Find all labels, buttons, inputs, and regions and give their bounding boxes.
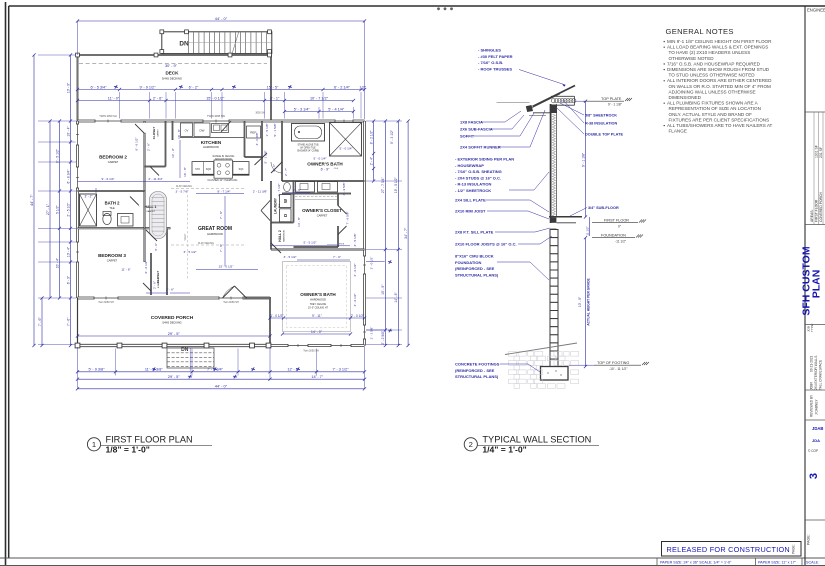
svg-text:6' - 8 3/4": 6' - 8 3/4" xyxy=(66,169,70,184)
kitchen island xyxy=(192,162,249,176)
svg-text:7' - 6": 7' - 6" xyxy=(66,317,70,326)
svg-text:2X4 SOFFIT RUNNER: 2X4 SOFFIT RUNNER xyxy=(460,145,501,150)
vault dashed + label xyxy=(187,195,189,280)
title block divider 1 xyxy=(805,111,825,113)
svg-text:OWNER'S BATH: OWNER'S BATH xyxy=(307,162,343,167)
svg-text:4 SHELVES: 4 SHELVES xyxy=(158,277,160,288)
exterior wall: bottom (porch header) xyxy=(78,297,271,300)
svg-text:FIXTURES ARE PER CLIENT SPECIF: FIXTURES ARE PER CLIENT SPECIFICATIONS xyxy=(669,117,770,122)
left overall 44-7 xyxy=(33,55,35,346)
svg-text:9' - 1 1/8": 9' - 1 1/8" xyxy=(608,103,623,107)
hall stairwell hatched xyxy=(150,192,167,239)
svg-text:2X4 EXTERIOR WALLS: 2X4 EXTERIOR WALLS xyxy=(814,356,818,390)
deck right edge wall xyxy=(270,55,272,121)
svg-text:5' - 0 1/4": 5' - 0 1/4" xyxy=(313,157,326,161)
svg-text:2X4 SILL PLATE: 2X4 SILL PLATE xyxy=(455,198,486,203)
title block left border xyxy=(804,6,806,566)
double top plate block xyxy=(550,105,557,114)
extension lines: bottom dim rows xyxy=(115,349,117,376)
svg-text:DN: DN xyxy=(181,347,189,353)
svg-text:3' - 5 1/2": 3' - 5 1/2" xyxy=(183,250,196,254)
svg-text:2' - 5 1/2": 2' - 5 1/2" xyxy=(66,202,70,217)
svg-text:W/ OPEN TILE: W/ OPEN TILE xyxy=(300,147,316,149)
door: bedroom2 xyxy=(143,123,146,133)
plan title: circled 1 xyxy=(87,438,100,451)
closet bedroom2: walls xyxy=(165,121,167,167)
door: great room french doors xyxy=(223,286,235,298)
svg-text:2' - 11 3/8": 2' - 11 3/8" xyxy=(253,189,268,193)
exterior wall: top xyxy=(78,120,365,123)
exterior wall: right xyxy=(363,121,366,346)
svg-text:29' - 5": 29' - 5" xyxy=(168,331,181,336)
svg-text:OWNER'S CLOSET: OWNER'S CLOSET xyxy=(302,208,342,213)
svg-text:27' - 1": 27' - 1" xyxy=(46,203,50,215)
svg-text:2' - 7": 2' - 7" xyxy=(284,168,288,176)
left dim chain inner xyxy=(70,55,72,346)
porch bottom edge + posts xyxy=(78,343,271,345)
kitchen right wall (pantry/ref) xyxy=(244,121,246,157)
svg-text:CLG: CLG xyxy=(334,168,339,170)
extension lines: top dim rows xyxy=(119,92,121,119)
svg-text:CLOSET: CLOSET xyxy=(152,127,156,140)
svg-text:- #30 FELT PAPER: - #30 FELT PAPER xyxy=(478,54,513,59)
right dim chain 27-7/10-9 xyxy=(384,121,386,346)
owners wc toilet xyxy=(284,182,291,191)
svg-text:PAPER SIZE: 11" x 17": PAPER SIZE: 11" x 17" xyxy=(758,561,797,565)
svg-text:TWIN 3050 SH: TWIN 3050 SH xyxy=(99,114,117,118)
right dim 9-1 1/8 xyxy=(585,101,587,217)
svg-text:- 1/2" SHEETROCK: - 1/2" SHEETROCK xyxy=(455,188,491,193)
svg-text:7' - 8": 7' - 8" xyxy=(219,211,223,219)
svg-text:10' - 4": 10' - 4" xyxy=(55,257,59,268)
svg-text:ALL PLUMBING FIXTURES SHOWN AR: ALL PLUMBING FIXTURES SHOWN ARE A xyxy=(667,101,759,106)
grade line xyxy=(505,343,577,355)
svg-text:1: 1 xyxy=(92,440,96,449)
svg-text:GENERAL NOTES: GENERAL NOTES xyxy=(666,27,734,36)
ground hatch around footing xyxy=(509,352,579,389)
svg-text:6' - 9": 6' - 9" xyxy=(321,167,330,171)
sheet border top xyxy=(9,5,825,7)
kitchen/great-room wall stub xyxy=(172,121,174,140)
windows: top wall xyxy=(95,119,121,123)
svg-text:Twin 3050 SH: Twin 3050 SH xyxy=(223,301,239,304)
svg-text:FLAT CEILING: FLAT CEILING xyxy=(176,185,192,188)
svg-text:1' - 7 1/2": 1' - 7 1/2" xyxy=(277,183,281,196)
svg-text:2' - 9": 2' - 9" xyxy=(293,188,301,192)
right window locator dims xyxy=(366,261,385,263)
svg-text:7' - 0": 7' - 0" xyxy=(333,255,341,259)
svg-text:5' - 5 1/2": 5' - 5 1/2" xyxy=(303,241,316,245)
left dim 27-1 xyxy=(49,121,51,298)
svg-text:16' - 8": 16' - 8" xyxy=(183,167,187,177)
deck dashed setback line, 30-9 dim xyxy=(79,63,267,65)
svg-text:OTHERWISE NOTED: OTHERWISE NOTED xyxy=(669,56,715,61)
svg-text:HARDWOOD: HARDWOOD xyxy=(207,232,223,236)
svg-text:CARPET: CARPET xyxy=(146,210,156,213)
svg-text:MIN 9'-1 1/8" CEILING HEIGHT O: MIN 9'-1 1/8" CEILING HEIGHT ON FIRST FL… xyxy=(667,39,772,44)
svg-text:9' - 9 1/2": 9' - 9 1/2" xyxy=(139,85,156,89)
svg-text:- 7/16" O.S.B. SHEATING: - 7/16" O.S.B. SHEATING xyxy=(455,169,502,174)
svg-text:5 1/2": 5 1/2" xyxy=(55,205,59,214)
windows: right wall xyxy=(363,256,367,274)
svg-text:RELEASED FOR CONSTRUCTION: RELEASED FOR CONSTRUCTION xyxy=(667,545,790,554)
svg-text:2' - 2 5/8": 2' - 2 5/8" xyxy=(370,327,374,340)
svg-text:SOFFIT: SOFFIT xyxy=(460,134,475,139)
svg-text:- HOUSEWRAP: - HOUSEWRAP xyxy=(455,163,484,168)
wall insulation zigzag xyxy=(552,114,555,217)
right dim actual height xyxy=(585,238,587,367)
svg-text:29' - 5": 29' - 5" xyxy=(168,375,180,379)
svg-text:10' - 0": 10' - 0" xyxy=(66,82,70,93)
svg-text:1/2": 1/2" xyxy=(359,85,366,89)
svg-text:FOUNDATION: FOUNDATION xyxy=(601,234,626,238)
svg-text:16' - 8": 16' - 8" xyxy=(177,129,181,139)
svg-text:VAULT: VAULT xyxy=(184,233,187,241)
svg-text:FLUSHED 42" OVERHANG: FLUSHED 42" OVERHANG xyxy=(208,179,238,182)
wall stud band xyxy=(550,104,552,223)
svg-text:7' - 6 5/8": 7' - 6 5/8" xyxy=(346,211,350,224)
owners closet bottom wall xyxy=(294,246,339,248)
svg-text:14' - 0": 14' - 0" xyxy=(311,330,323,334)
svg-text:CARPET: CARPET xyxy=(317,214,328,218)
door: bedroom2 closet xyxy=(150,167,159,176)
svg-text:- EXTERIOR SIDING PER PLAN: - EXTERIOR SIDING PER PLAN xyxy=(455,157,514,162)
svg-text:DECK: DECK xyxy=(165,71,179,76)
wing left wall (porch right) xyxy=(269,298,271,346)
svg-text:2' - 6": 2' - 6" xyxy=(153,281,157,289)
section roof slope xyxy=(533,86,576,107)
svg-text:CARPET: CARPET xyxy=(157,128,160,137)
svg-text:6' - 6 1/2": 6' - 6 1/2" xyxy=(135,137,139,150)
sheet border left xyxy=(8,6,10,558)
svg-text:CARPET: CARPET xyxy=(108,160,119,164)
wing window dims xyxy=(270,317,365,319)
owners closet shelves + label xyxy=(295,196,337,198)
door: kitchen top (deck door) xyxy=(221,121,231,132)
svg-text:10' - 7 1/2": 10' - 7 1/2" xyxy=(310,96,329,100)
svg-text:2X8 P.T. SILL PLATE: 2X8 P.T. SILL PLATE xyxy=(455,230,494,235)
deck top edge wall xyxy=(78,54,272,56)
toolbar dots xyxy=(437,7,440,10)
top dim chain row 3 xyxy=(285,111,354,113)
svg-text:8' - 2 1/2": 8' - 2 1/2" xyxy=(369,129,373,144)
svg-text:2: 2 xyxy=(469,440,473,449)
stair break line xyxy=(232,31,239,54)
deck stair landing outline xyxy=(162,32,272,54)
svg-text:ALL INTERIOR DOORS ARE EITHER: ALL INTERIOR DOORS ARE EITHER CENTERED xyxy=(667,78,772,83)
svg-text:3' - 11 3/4": 3' - 11 3/4" xyxy=(148,177,163,181)
stair corner posts xyxy=(160,30,164,34)
svg-text:ADJOINING WALL UNLESS OTHERWIS: ADJOINING WALL UNLESS OTHERWISE xyxy=(669,89,756,94)
top dim chain row 2 xyxy=(78,100,354,102)
hall2 / owners closet top wall xyxy=(282,193,351,195)
bath2 toilet xyxy=(103,213,111,224)
svg-text:9' - 3 1/2": 9' - 3 1/2" xyxy=(390,129,394,144)
svg-text:8' - 7 1/4": 8' - 7 1/4" xyxy=(217,189,230,193)
door arc owners bath xyxy=(271,162,282,173)
svg-text:5' - 4 1/4": 5' - 4 1/4" xyxy=(328,107,345,111)
svg-text:1X8 FASCIA: 1X8 FASCIA xyxy=(460,120,483,125)
svg-text:FOUNDATION: FOUNDATION xyxy=(455,260,481,265)
right dim chain near wall xyxy=(373,121,375,181)
sheet outer trim line (left) xyxy=(5,2,7,566)
svg-text:2' - 6": 2' - 6" xyxy=(153,96,163,100)
section title: circled 2 xyxy=(464,438,477,451)
interior wall: bedroom3 right xyxy=(144,228,146,262)
ceiling line left of wall xyxy=(497,102,530,104)
svg-text:14' - 8": 14' - 8" xyxy=(394,292,398,303)
extension lines: left dims xyxy=(38,54,76,56)
svg-text:5/8" SHEETROCK: 5/8" SHEETROCK xyxy=(585,114,617,118)
svg-text:ON WALLS OR R.O. STARTED MIN O: ON WALLS OR R.O. STARTED MIN OF 4" FROM xyxy=(669,84,772,89)
great room bottom right wall segment xyxy=(245,297,272,299)
svg-text:REVIEWED BY: REVIEWED BY xyxy=(810,394,814,417)
svg-text:14' - 8": 14' - 8" xyxy=(297,217,301,227)
svg-text:TYPE:: TYPE: xyxy=(810,323,814,332)
door: owners closet xyxy=(338,206,347,215)
svg-text:TYPICAL WALL SECTION: TYPICAL WALL SECTION xyxy=(482,435,591,445)
svg-text:- 7/16" O.S.B.: - 7/16" O.S.B. xyxy=(478,60,503,65)
svg-text:© COP: © COP xyxy=(808,449,818,453)
svg-text:- ROOF TRUSSES: - ROOF TRUSSES xyxy=(478,66,512,71)
right overall 34-7 xyxy=(407,121,409,346)
svg-text:4' - 0 3/8": 4' - 0 3/8" xyxy=(255,132,259,145)
extension lines: right dims xyxy=(366,120,402,122)
left dim chain mid xyxy=(59,121,61,298)
svg-text:2X10 RIM JOIST: 2X10 RIM JOIST xyxy=(455,209,486,214)
svg-text:HALL 1: HALL 1 xyxy=(145,205,157,209)
interior wall: bath2/bedroom3 divider xyxy=(78,227,171,229)
svg-text:LAUNDRY: LAUNDRY xyxy=(274,197,278,214)
released for construction box xyxy=(662,542,802,557)
roof trusses leader with arrow xyxy=(519,70,566,86)
svg-text:3050 SH: 3050 SH xyxy=(255,112,265,115)
title block divider 5 xyxy=(805,419,825,421)
svg-text:Twin 3050 SH: Twin 3050 SH xyxy=(303,350,319,353)
laundry appliances xyxy=(280,195,292,208)
svg-text:FIRST FLOOR PLAN: FIRST FLOOR PLAN xyxy=(106,435,193,445)
title block divider 4 xyxy=(805,389,825,391)
svg-text:3' - 2": 3' - 2" xyxy=(84,195,92,199)
svg-text:19' - 0 1/2": 19' - 0 1/2" xyxy=(394,177,398,194)
svg-text:231 SF: 231 SF xyxy=(819,147,823,158)
svg-text:4' - 9 5/8": 4' - 9 5/8" xyxy=(342,182,346,195)
svg-text:BEDROOM 2: BEDROOM 2 xyxy=(99,155,127,160)
svg-text:Twin 3050 SH: Twin 3050 SH xyxy=(98,301,114,304)
svg-text:FLANGE: FLANGE xyxy=(669,129,687,134)
svg-text:9' - 5 1/2": 9' - 5 1/2" xyxy=(55,148,59,163)
svg-text:30' - 9": 30' - 9" xyxy=(165,63,178,68)
soffit line xyxy=(533,112,551,114)
svg-text:- R-13 INSULATION: - R-13 INSULATION xyxy=(455,182,491,187)
svg-text:DIMENSIONS ARE SHOW ROUGH FROM: DIMENSIONS ARE SHOW ROUGH FROM STUD xyxy=(667,67,770,72)
owners bath shower xyxy=(330,123,362,157)
svg-text:HARDWOOD: HARDWOOD xyxy=(310,298,326,302)
general notes body xyxy=(664,41,665,42)
owners closet right wall xyxy=(337,194,339,206)
floor band at first floor xyxy=(549,216,582,218)
svg-text:3' - 0": 3' - 0" xyxy=(272,164,276,172)
svg-text:SCALE:: SCALE: xyxy=(806,561,819,565)
svg-text:DIMENSIONED: DIMENSIONED xyxy=(669,95,702,100)
svg-text:BEDROOM 3: BEDROOM 3 xyxy=(98,253,126,258)
svg-text:R-38 INSULATION: R-38 INSULATION xyxy=(585,122,617,126)
svg-text:DW: DW xyxy=(200,129,205,133)
svg-text:44' - 0": 44' - 0" xyxy=(215,384,228,389)
right dim 11 1/2 xyxy=(589,217,591,236)
svg-text:2' - 6": 2' - 6" xyxy=(147,143,151,151)
title block divider 3 xyxy=(805,324,825,326)
svg-text:5' - 1 5/8": 5' - 1 5/8" xyxy=(264,150,268,163)
svg-text:PLAN: PLAN xyxy=(811,270,823,299)
svg-text:TILE: TILE xyxy=(109,207,115,210)
svg-text:10' - 4": 10' - 4" xyxy=(66,126,70,137)
svg-text:5/4X6 DECKING: 5/4X6 DECKING xyxy=(162,76,182,80)
owners bath left wall xyxy=(281,121,283,181)
svg-text:TOP OF FOOTING: TOP OF FOOTING xyxy=(597,361,629,365)
svg-text:11 1/2": 11 1/2" xyxy=(585,226,589,235)
svg-text:15' - 5": 15' - 5" xyxy=(267,85,279,89)
wing bottom wall xyxy=(270,344,365,347)
svg-text:W: W xyxy=(283,199,288,203)
svg-text:JDA: JDA xyxy=(812,438,820,443)
svg-text:D: D xyxy=(283,214,288,217)
svg-text:KITCHEN: KITCHEN xyxy=(201,140,222,145)
svg-text:FLAT CEILING: FLAT CEILING xyxy=(198,242,214,245)
svg-text:SQR: SQR xyxy=(206,168,211,171)
svg-text:TILE: TILE xyxy=(279,203,281,208)
svg-text:5' - 9 3/8": 5' - 9 3/8" xyxy=(88,368,105,372)
laundry bifold doors xyxy=(261,200,271,211)
svg-text:BATH 2: BATH 2 xyxy=(105,201,120,206)
svg-text:CARPET: CARPET xyxy=(107,259,118,263)
windows: bottom walls xyxy=(94,296,118,300)
svg-text:CONCRETE FOOTINGS: CONCRETE FOOTINGS xyxy=(455,362,500,367)
svg-text:TREY CEILING: TREY CEILING xyxy=(310,303,327,306)
right dim chain 19-0/14-8 xyxy=(397,121,399,346)
svg-text:15' - 0 1/2": 15' - 0 1/2" xyxy=(219,265,234,269)
svg-text:3' - 1": 3' - 1" xyxy=(270,96,280,100)
interior small dim lines xyxy=(78,181,191,183)
owners bath vanity wall xyxy=(282,180,365,182)
wing 14-0 dim xyxy=(283,333,351,335)
porch steps xyxy=(167,348,214,368)
bottom dim chain row 1 xyxy=(78,371,365,373)
svg-text:14' - 7": 14' - 7" xyxy=(311,375,323,379)
wing top wall xyxy=(271,249,365,251)
svg-text:5/4X6 DECKING: 5/4X6 DECKING xyxy=(162,321,181,325)
svg-text:2' - 2 5/8": 2' - 2 5/8" xyxy=(381,330,385,345)
svg-text:44' - 0": 44' - 0" xyxy=(215,16,228,21)
svg-text:OWNER'S BATH: OWNER'S BATH xyxy=(300,292,336,297)
svg-text:STRUCTURAL PLANS): STRUCTURAL PLANS) xyxy=(455,374,499,379)
svg-text:FIRST FLOOR: FIRST FLOOR xyxy=(604,219,629,223)
svg-text:2' - 0 1/2": 2' - 0 1/2" xyxy=(270,314,283,318)
door: bedroom3 closet xyxy=(143,283,151,291)
bottom dim chain row 2 xyxy=(78,378,365,380)
porch 29-5 dim xyxy=(78,335,271,337)
svg-text:J DABNEY: J DABNEY xyxy=(815,399,819,415)
svg-text:3/4" SUB-FLOOR: 3/4" SUB-FLOOR xyxy=(588,206,619,210)
ceiling insulation coil xyxy=(551,95,575,97)
svg-text:10' - 9": 10' - 9" xyxy=(171,148,175,158)
svg-text:9' - 11": 9' - 11" xyxy=(312,314,322,318)
svg-text:1/8" = 1'-0": 1/8" = 1'-0" xyxy=(106,445,150,455)
svg-text:7' - 6": 7' - 6" xyxy=(38,317,42,327)
title block divider 2 xyxy=(805,224,825,226)
owners bath tub xyxy=(292,124,325,142)
top dim chain row 1 xyxy=(78,89,365,91)
svg-text:- 2X4 STUDS @ 16" O.C.: - 2X4 STUDS @ 16" O.C. xyxy=(455,175,501,180)
svg-text:3' - 5 7/8": 3' - 5 7/8" xyxy=(175,189,188,193)
interior wall: bedroom2 right xyxy=(144,121,146,191)
bottom overall 44-0 xyxy=(78,388,365,390)
door: bath2 xyxy=(130,197,140,207)
svg-text:(REINFORCED - SEE: (REINFORCED - SEE xyxy=(455,368,495,373)
interior wall: bedroom2/bath2 divider xyxy=(78,190,145,192)
svg-text:STO: STO xyxy=(195,168,200,171)
svg-text:- SHINGLES: - SHINGLES xyxy=(478,48,501,53)
sheet border bottom xyxy=(0,557,825,559)
deck left edge wall xyxy=(77,55,79,121)
svg-text:TALL CRAWLSPACE: TALL CRAWLSPACE xyxy=(819,360,823,390)
laundry walls xyxy=(270,181,272,250)
svg-text:PAGE:: PAGE: xyxy=(807,534,811,545)
svg-text:5' - 3 1/4": 5' - 3 1/4" xyxy=(294,107,311,111)
svg-text:11' - 6": 11' - 6" xyxy=(121,268,130,272)
bath2 vanity xyxy=(118,214,134,227)
svg-text:PAGE:: PAGE: xyxy=(792,544,796,554)
svg-text:3' - 6": 3' - 6" xyxy=(154,243,158,251)
svg-text:3' - 5 1/8": 3' - 5 1/8" xyxy=(353,233,357,246)
svg-text:7/16" O.S.B. AND HOUSEWRAP REQ: 7/16" O.S.B. AND HOUSEWRAP REQUIRED xyxy=(667,61,761,66)
svg-text:3: 3 xyxy=(808,473,820,479)
title block divider 6 xyxy=(805,519,825,521)
roof overhang/fascia block xyxy=(526,105,533,112)
footing xyxy=(541,367,569,381)
bottom paper-size strip xyxy=(656,558,658,566)
owners bath vanities xyxy=(296,182,315,193)
svg-text:6' - 5 3/4": 6' - 5 3/4" xyxy=(90,85,107,89)
svg-text:REPRESENTATION OF SIZE AN LOCA: REPRESENTATION OF SIZE AN LOCATION xyxy=(669,106,761,111)
svg-text:2' - 0 1/2": 2' - 0 1/2" xyxy=(370,257,374,270)
exterior wall: left xyxy=(76,121,79,298)
svg-text:44' - 7": 44' - 7" xyxy=(30,194,34,206)
svg-text:TO STUD UNLESS OTHERWISE NOTED: TO STUD UNLESS OTHERWISE NOTED xyxy=(669,73,756,78)
svg-text:COVERED PORCH: COVERED PORCH xyxy=(819,191,823,222)
left porch 7-6 xyxy=(41,298,43,346)
svg-text:2X10 FLOOR JOISTS @ 16" O.C.: 2X10 FLOOR JOISTS @ 16" O.C. xyxy=(455,242,517,247)
top overall dimension 44-0 xyxy=(78,20,365,22)
svg-text:DOUBLE TOP PLATE: DOUBLE TOP PLATE xyxy=(585,133,623,137)
svg-text:HARDWOOD: HARDWOOD xyxy=(282,229,285,242)
svg-text:SHOWER (4" CURB): SHOWER (4" CURB) xyxy=(297,150,319,152)
door: pantry xyxy=(255,153,268,165)
svg-text:2' - 0 1/2": 2' - 0 1/2" xyxy=(351,314,364,318)
svg-text:FIRST FLOOR: FIRST FLOOR xyxy=(814,199,818,222)
svg-text:HALL 2: HALL 2 xyxy=(278,230,282,242)
svg-text:5' - 1 5/8": 5' - 1 5/8" xyxy=(273,123,277,136)
svg-text:COVERED PORCH: COVERED PORCH xyxy=(151,315,194,321)
refrigerator xyxy=(247,126,261,138)
svg-text:2' - 6": 2' - 6" xyxy=(166,288,174,292)
svg-text:1' - 5 1/8": 1' - 5 1/8" xyxy=(265,123,269,136)
svg-text:STAND ALONE TUB: STAND ALONE TUB xyxy=(297,144,319,147)
svg-text:ONLY. ACTUAL STYLE AND BRAND O: ONLY. ACTUAL STYLE AND BRAND OF xyxy=(669,112,753,117)
svg-text:TWIN 3068 SW: TWIN 3068 SW xyxy=(207,114,226,118)
svg-text:6' - 9": 6' - 9" xyxy=(66,275,70,284)
deck stair treads xyxy=(188,32,190,53)
